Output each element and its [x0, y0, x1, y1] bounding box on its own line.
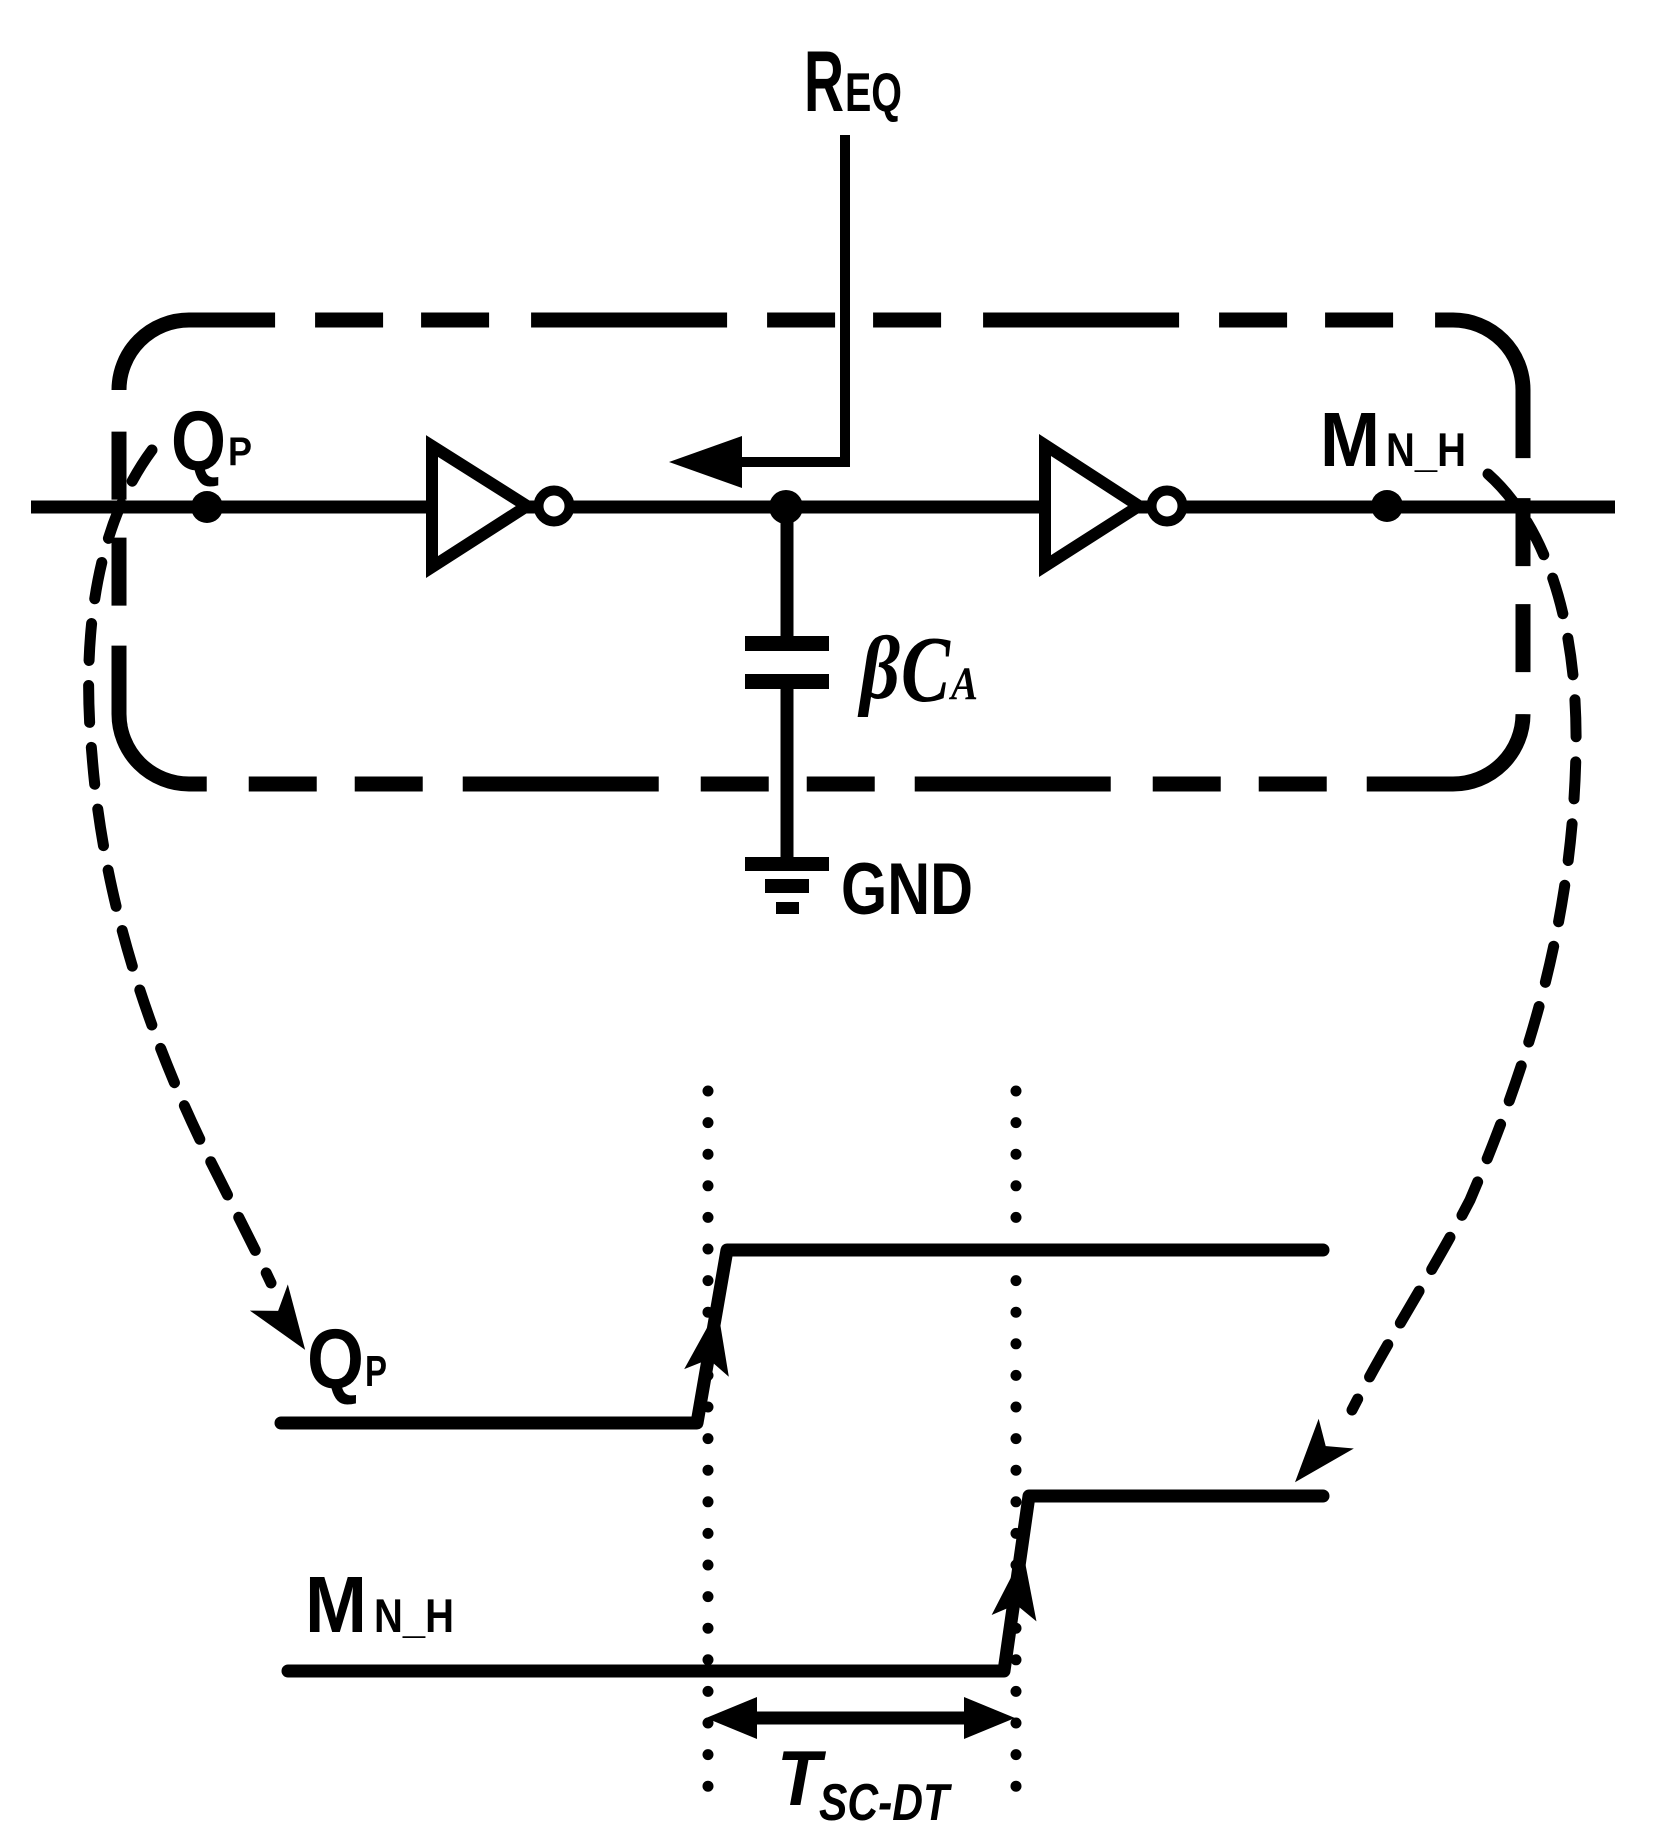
- svg-text:P: P: [228, 430, 252, 474]
- right arrowhead of double arrow: [964, 1697, 1015, 1739]
- dotted timing reference line left: [703, 1091, 714, 1790]
- node MN_H junction dot: [1371, 490, 1403, 522]
- ground symbol bar 1: [745, 857, 829, 871]
- svg-text:β: β: [857, 619, 900, 718]
- wire: node down to capacitor: [781, 507, 794, 638]
- inverter U1 output bubble: [539, 491, 570, 522]
- inverter U2 output bubble: [1152, 491, 1183, 522]
- svg-text:N_H: N_H: [374, 1589, 454, 1642]
- dashed boundary box around circuit: [119, 320, 1523, 784]
- svg-text:Q: Q: [307, 1312, 364, 1406]
- arrowhead on QP rising edge: [690, 1313, 734, 1370]
- svg-text:R: R: [804, 34, 844, 130]
- capacitor beta-CA bottom plate: [745, 674, 829, 689]
- svg-text:M: M: [1320, 397, 1380, 483]
- wire: main horizontal net QP to MN_H: [31, 501, 1615, 514]
- dashed curve arrow from QP node to waveform (left): [89, 450, 271, 1283]
- wire: REQ pointer elbow: [742, 135, 845, 462]
- capacitor beta-CA top plate: [745, 636, 829, 651]
- svg-text:SC-DT: SC-DT: [819, 1774, 952, 1832]
- dotted timing reference line right: [1011, 1091, 1022, 1790]
- arrowhead of REQ pointer (points left at wire): [669, 436, 742, 488]
- ground symbol bar 2: [765, 879, 809, 893]
- arrowhead on MN_H rising edge: [997, 1558, 1040, 1615]
- dimension double arrow TSC-DT: [748, 1712, 973, 1725]
- svg-text:C: C: [901, 618, 951, 722]
- waveform MN_H trace: [288, 1496, 1323, 1671]
- svg-text:M: M: [305, 1560, 367, 1649]
- node QP junction dot: [191, 491, 223, 523]
- arrowhead of left dashed curve: [259, 1294, 314, 1352]
- left arrowhead of double arrow: [706, 1697, 757, 1739]
- arrowhead of right dashed curve: [1288, 1429, 1344, 1487]
- svg-text:GND: GND: [841, 849, 973, 930]
- svg-text:Q: Q: [171, 394, 226, 488]
- wire: capacitor down to ground: [781, 689, 794, 859]
- node center junction dot: [769, 490, 803, 524]
- inverter U1 triangle: [432, 446, 527, 567]
- svg-text:P: P: [365, 1347, 387, 1396]
- svg-text:EQ: EQ: [845, 61, 902, 123]
- waveform QP trace: [281, 1250, 1323, 1423]
- dashed curve arrow from MN_H node to waveform (right): [1352, 474, 1576, 1410]
- inverter U2 triangle: [1045, 445, 1139, 566]
- svg-text:N_H: N_H: [1386, 423, 1466, 476]
- ground symbol bar 3: [776, 902, 799, 914]
- svg-text:A: A: [948, 658, 978, 710]
